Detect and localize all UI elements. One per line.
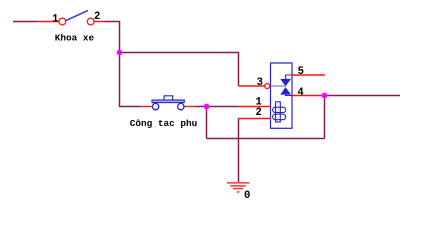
switch terminal 2 circle — [87, 18, 94, 25]
relay pin 5 stub — [292, 74, 325, 76]
relay pin 3 stub — [239, 85, 265, 87]
wire junction2 to relay pin1 — [207, 106, 238, 108]
svg-text:0: 0 — [244, 190, 250, 202]
ground bar 4 — [237, 191, 239, 193]
ground bar 3 — [233, 188, 243, 190]
ground bar 1 — [227, 182, 250, 184]
relay coil loop 2 — [273, 114, 286, 120]
relay body box — [271, 63, 293, 128]
pushbutton contact bar — [152, 100, 184, 103]
svg-text:5: 5 — [298, 66, 304, 78]
relay common line pin3 internal — [271, 85, 286, 87]
switch arm blade — [66, 10, 88, 20]
svg-text:2: 2 — [256, 107, 262, 119]
pushbutton right terminal circle — [178, 103, 184, 109]
svg-text:4: 4 — [297, 87, 304, 99]
pushbutton actuator bump — [164, 96, 173, 100]
relay — [238, 63, 326, 128]
wire junction2 down to bottom bus — [206, 107, 208, 139]
relay pin 1 stub — [238, 106, 271, 108]
node A junction dot — [117, 50, 123, 56]
switch terminal 1 circle — [59, 18, 66, 25]
switch pin 1 stub — [38, 21, 59, 23]
ground — [227, 183, 250, 192]
relay pin5 internal step — [286, 75, 292, 79]
relay contact arrow lower (points up) — [281, 88, 290, 94]
wire vertical drop junction to pushbutton row — [120, 53, 141, 107]
wire relay pin2 down to ground — [238, 119, 240, 183]
svg-text:Khoa xe: Khoa xe — [55, 32, 95, 43]
relay pin 2 stub — [239, 118, 271, 120]
svg-text:2: 2 — [94, 11, 100, 23]
wire from switch pin2 to vertical drop — [105, 22, 120, 53]
pushbutton left terminal circle — [152, 103, 158, 109]
wire pushbutton to junction2 — [196, 106, 207, 108]
node C junction dot — [322, 93, 328, 99]
svg-text:Công tac phu: Công tac phu — [130, 118, 198, 129]
switch pin 2 stub — [94, 21, 105, 23]
wire pin4 junction to right — [325, 95, 401, 97]
node B junction dot — [204, 104, 210, 110]
relay pin 3 circle — [265, 84, 270, 89]
wire junction to relay pin3 — [120, 53, 239, 87]
ground bar 2 — [230, 185, 246, 187]
wire bottom bus — [207, 138, 325, 140]
svg-text:1: 1 — [52, 13, 58, 25]
relay coil loop 1 — [273, 107, 286, 112]
pushbutton right pin stub — [184, 106, 196, 108]
relay coil bar — [276, 102, 281, 122]
pushbutton left pin stub — [140, 106, 152, 108]
pushbutton Cong tac phu — [140, 96, 196, 110]
relay contact arrow upper (points down) — [281, 79, 290, 85]
switch Khoa xe — [38, 10, 106, 25]
svg-text:3: 3 — [257, 77, 263, 89]
relay pin4 internal step — [286, 94, 292, 95]
wire bus up to pin4 junction — [324, 96, 326, 139]
relay pin 4 stub — [292, 95, 324, 97]
wire left lead-in to switch — [13, 21, 38, 23]
